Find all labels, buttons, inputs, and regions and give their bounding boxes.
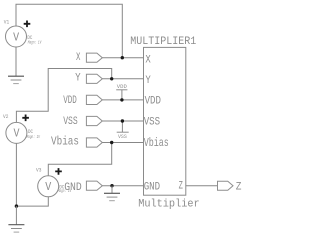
wire port X to pin X [102, 57, 143, 59]
svg-text:Vbias: Vbias [144, 136, 169, 150]
port GND symbol [86, 181, 102, 190]
svg-text:VSS: VSS [118, 134, 127, 140]
wire port Y to pin Y [102, 78, 143, 80]
node X junction [121, 56, 124, 59]
svg-text:Magn: 1V: Magn: 1V [28, 40, 42, 46]
svg-text:VDD: VDD [117, 84, 127, 90]
svg-text:GND: GND [144, 182, 161, 194]
svg-text:DC: DC [28, 128, 34, 135]
port Z symbol [218, 181, 234, 190]
node VSS junction [121, 119, 124, 122]
ground bottom-left [8, 225, 24, 232]
svg-text:VSS: VSS [144, 116, 161, 128]
svg-text:V: V [45, 181, 51, 194]
svg-text:X: X [145, 54, 151, 66]
voltage source V3 [36, 168, 72, 197]
svg-text:V2: V2 [3, 114, 8, 120]
supply symbol VSS [117, 121, 129, 140]
node bottom junction [15, 204, 18, 207]
svg-text:V: V [13, 31, 19, 44]
node Vbias junction [110, 141, 113, 144]
wire V2+ to node Y [16, 69, 111, 123]
svg-text:V3: V3 [36, 168, 41, 174]
subcircuit block MULTIPLIER1 [130, 36, 199, 211]
svg-text:Y: Y [75, 72, 81, 84]
node Y junction [110, 77, 113, 80]
svg-text:Y: Y [145, 75, 151, 87]
node VDD junction [120, 98, 123, 101]
wire pin Z to port Z [186, 185, 218, 187]
voltage source V1 [4, 19, 42, 47]
wire port GND to pin GND [102, 185, 143, 187]
svg-text:Multiplier: Multiplier [138, 199, 200, 211]
svg-text:Vbias: Vbias [51, 135, 79, 149]
wire port Vbias to pin Vbias [102, 142, 143, 144]
wire port VSS to pin VSS [102, 120, 143, 122]
voltage source V2 [3, 114, 41, 143]
port VDD symbol [86, 95, 102, 104]
wire bottom node to ground [15, 206, 17, 224]
svg-text:MULTIPLIER1: MULTIPLIER1 [130, 36, 196, 48]
wire V1- to ground [15, 47, 17, 76]
svg-text:VDD: VDD [63, 95, 77, 107]
port Y symbol [86, 74, 102, 83]
wire V2- / V3- to ground node [16, 143, 48, 206]
svg-text:Z: Z [179, 181, 184, 193]
wire port VDD to pin VDD [102, 99, 143, 101]
supply symbol VDD [116, 84, 127, 100]
svg-text:X: X [76, 52, 81, 64]
ground under GND node [104, 193, 120, 200]
port Vbias symbol [86, 138, 102, 147]
svg-text:V: V [14, 128, 20, 141]
svg-text:Z: Z [236, 182, 242, 194]
svg-text:Magn: 1V: Magn: 1V [27, 134, 41, 140]
svg-text:GND: GND [64, 182, 82, 194]
wire GND node to ground [111, 186, 113, 194]
svg-text:VDD: VDD [145, 95, 162, 107]
svg-text:V1: V1 [4, 19, 9, 25]
port X symbol [86, 53, 102, 62]
port VSS symbol [86, 116, 102, 125]
wire V3+ to node Vbias [48, 143, 111, 176]
wire V1+ to node X [16, 4, 122, 57]
node GND junction [110, 184, 113, 187]
svg-text:VSS: VSS [63, 116, 78, 128]
ground under V1 [8, 76, 24, 83]
